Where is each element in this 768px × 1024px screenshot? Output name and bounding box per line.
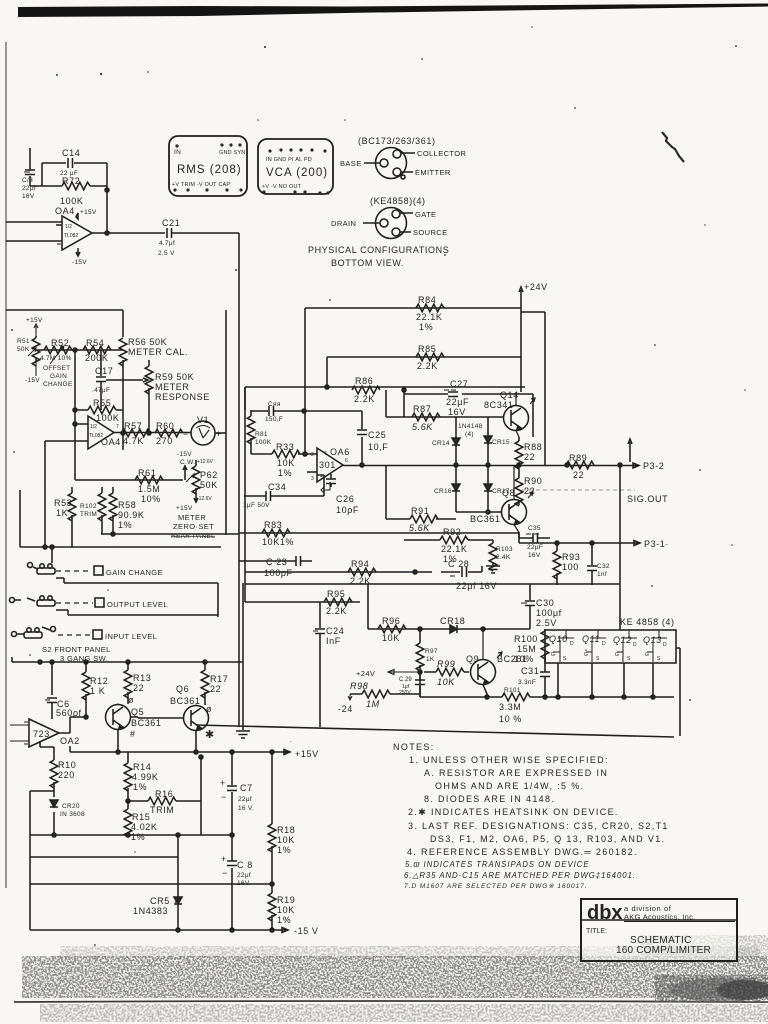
wire top rail meter section — [6, 310, 123, 337]
svg-text:22: 22 — [573, 470, 584, 480]
node — [555, 541, 559, 545]
wire main ground rail — [196, 725, 674, 737]
wire OA2 out to Q5 base — [59, 717, 86, 733]
svg-text:#: # — [130, 729, 136, 739]
svg-text:4.7μf: 4.7μf — [159, 240, 175, 247]
svg-text:3. LAST REF. DESIGNATIONS:: 3. LAST REF. DESIGNATIONS: C35, CR20, S2… — [408, 821, 669, 831]
svg-text:1%: 1% — [278, 468, 292, 478]
wire rail y547 — [20, 490, 221, 563]
resistor R58 — [109, 487, 144, 534]
svg-text:GND SYN: GND SYN — [219, 150, 245, 156]
svg-text:Q9: Q9 — [466, 654, 479, 664]
svg-text:R93: R93 — [562, 552, 580, 562]
svg-text:C7: C7 — [240, 783, 253, 793]
svg-text:OA6: OA6 — [330, 447, 350, 457]
svg-text:.47μF: .47μF — [92, 387, 110, 394]
resistor R12 — [82, 662, 108, 717]
resistor R94 — [348, 559, 376, 586]
resistor R52 — [40, 338, 72, 364]
wire rail y584 — [245, 387, 620, 602]
fet Q13 — [643, 630, 667, 662]
top scan bar — [18, 4, 768, 18]
resistor R16 TRIM — [128, 755, 203, 835]
svg-text:(BC173/263/361): (BC173/263/361) — [358, 136, 436, 146]
svg-text:+24V: +24V — [356, 669, 375, 678]
svg-text:DS3, F1, M2, OA6, P5, Q 13, R: DS3, F1, M2, OA6, P5, Q 13, R103, AND V1… — [430, 834, 665, 844]
svg-text:1N4148: 1N4148 — [458, 423, 483, 430]
svg-text:1. UNLESS OTHER WISE SPECIFIE: 1. UNLESS OTHER WISE SPECIFIED: — [409, 755, 609, 765]
svg-text:GATE: GATE — [415, 210, 436, 219]
wire CR18 row — [368, 628, 530, 630]
svg-text:-24: -24 — [338, 704, 353, 714]
svg-text:C26: C26 — [336, 494, 354, 504]
capacitor C35 — [519, 525, 550, 559]
wire Q8 base row — [456, 511, 501, 513]
svg-text:R57: R57 — [124, 421, 142, 431]
svg-text:R18: R18 — [277, 825, 295, 835]
resistor R17 — [201, 662, 228, 705]
svg-text:16V: 16V — [528, 552, 541, 559]
svg-text:C 23: C 23 — [266, 557, 287, 567]
svg-text:-15V: -15V — [72, 259, 87, 266]
svg-text:METER: METER — [178, 513, 206, 522]
dashed link — [56, 602, 93, 604]
svg-text:2.✱ INDICATES HEATSINK ON DE: 2.✱ INDICATES HEATSINK ON DEVICE. — [408, 807, 619, 817]
svg-text:INPUT LEVEL: INPUT LEVEL — [105, 632, 157, 641]
svg-text:R55: R55 — [93, 398, 111, 408]
resistor R60 — [155, 421, 183, 446]
diode CR15 — [484, 417, 510, 466]
svg-text:+15V: +15V — [295, 749, 319, 759]
svg-text:G: G — [615, 652, 619, 658]
svg-text:✗: ✗ — [174, 895, 182, 905]
svg-text:10K: 10K — [277, 458, 295, 468]
svg-text:R91: R91 — [411, 506, 429, 516]
svg-text:100K: 100K — [60, 196, 83, 206]
svg-text:10,F: 10,F — [368, 442, 388, 452]
svg-text:C31: C31 — [521, 666, 539, 676]
svg-text:R103: R103 — [496, 546, 513, 553]
resistor R14 — [124, 752, 158, 801]
capacitor C21 — [158, 218, 239, 257]
svg-text:5.ϖ INDICATES TRANSIPADS ON: 5.ϖ INDICATES TRANSIPADS ON DEVICE — [405, 860, 590, 869]
svg-text:100: 100 — [562, 562, 579, 572]
svg-text:TITLE:: TITLE: — [586, 928, 607, 935]
svg-text:22: 22 — [524, 486, 535, 496]
svg-text:OHMS AND ARE 1/4W, :5 %.: OHMS AND ARE 1/4W, :5 %. — [435, 781, 584, 791]
capacitor C7 — [220, 752, 254, 835]
fet Q12 — [613, 630, 637, 662]
resistor R100 — [514, 629, 549, 664]
svg-text:RMS (208): RMS (208) — [177, 164, 242, 176]
switch gain change contacts — [28, 563, 56, 575]
resistor R85 — [416, 344, 444, 371]
ground — [486, 566, 500, 573]
svg-text:(4): (4) — [465, 431, 474, 438]
svg-text:C14: C14 — [62, 148, 80, 158]
meter V1 — [183, 415, 222, 445]
node — [38, 660, 42, 664]
svg-text:EMITTER: EMITTER — [415, 168, 451, 177]
svg-text:-12.6V: -12.6V — [197, 496, 212, 502]
svg-text:R33: R33 — [276, 442, 294, 452]
svg-text:BC361: BC361 — [131, 718, 162, 728]
svg-text:KE 4858 (4): KE 4858 (4) — [620, 617, 675, 627]
resistor R91 — [386, 466, 456, 533]
svg-text:R59 50K: R59 50K — [155, 372, 194, 382]
svg-text:1%: 1% — [277, 915, 291, 925]
svg-text:270: 270 — [156, 436, 173, 446]
svg-text:1%: 1% — [131, 832, 145, 842]
svg-text:R92: R92 — [443, 527, 461, 537]
svg-text:C30: C30 — [536, 598, 554, 608]
svg-text:22.1K: 22.1K — [416, 312, 443, 322]
node — [121, 431, 125, 435]
svg-text:AKG Acoustics, Inc.: AKG Acoustics, Inc. — [624, 913, 696, 922]
resistor R18 — [268, 752, 295, 884]
power +24V arrow — [356, 669, 420, 678]
svg-text:CR14: CR14 — [432, 440, 450, 447]
wire fet sources to rail — [558, 648, 680, 736]
svg-text:16 V.: 16 V. — [238, 805, 254, 812]
svg-text:8C341: 8C341 — [484, 400, 514, 410]
capacitor C24 — [313, 602, 344, 727]
svg-text:7: 7 — [324, 451, 327, 457]
svg-text:+12.6V: +12.6V — [197, 459, 214, 465]
svg-text:5.6K: 5.6K — [412, 422, 433, 432]
svg-text:CR5: CR5 — [150, 896, 170, 906]
wire P3-2 out — [545, 463, 639, 468]
bottom scan noise band — [22, 935, 768, 1022]
wire arrow up sig — [628, 439, 632, 462]
svg-text:+: + — [221, 854, 227, 864]
svg-text:22: 22 — [133, 683, 144, 693]
diode CR16 — [434, 466, 460, 512]
wire rail -15V — [30, 928, 288, 933]
svg-text:C25: C25 — [368, 430, 386, 440]
node — [270, 882, 274, 886]
wire rail y662 — [12, 657, 243, 662]
svg-text:IN: IN — [174, 149, 181, 156]
svg-text:7.D M1607 ARE SELECTED PER: 7.D M1607 ARE SELECTED PER DWG※ 160017. — [404, 883, 588, 890]
svg-text:Q5: Q5 — [131, 707, 144, 717]
node — [485, 695, 489, 699]
svg-text:R16: R16 — [155, 789, 173, 799]
svg-text:7: 7 — [116, 424, 119, 430]
svg-text:-15 V: -15 V — [294, 926, 319, 936]
svg-text:6.△R35 AND·C15 ARE MATCHED P: 6.△R35 AND·C15 ARE MATCHED PER DWG‡16400… — [404, 871, 636, 880]
box KE4858 quad — [545, 630, 676, 663]
svg-text:3.3M: 3.3M — [499, 702, 521, 712]
svg-text:R94: R94 — [351, 559, 369, 569]
svg-text:10K: 10K — [437, 677, 455, 687]
resistor R55 — [75, 398, 123, 423]
svg-text:OUTPUT LEVEL: OUTPUT LEVEL — [107, 600, 168, 609]
label AKG Acoustics Inc — [624, 913, 735, 922]
resistor R90 — [515, 466, 542, 506]
svg-text:R89: R89 — [569, 453, 587, 463]
module RMS (208) — [169, 136, 247, 196]
wire row R52 R54 — [36, 349, 123, 351]
wire sig out vertical — [619, 465, 621, 630]
capacitor C25 — [357, 411, 388, 465]
svg-text:CR18: CR18 — [440, 616, 465, 626]
svg-text:C 8: C 8 — [237, 860, 253, 870]
svg-text:22μF: 22μF — [527, 544, 543, 551]
svg-text:C21: C21 — [162, 218, 180, 228]
svg-text:4.02K: 4.02K — [131, 822, 158, 832]
svg-text:1nf: 1nf — [597, 571, 607, 578]
node — [73, 348, 77, 352]
resistor R53 — [54, 487, 76, 547]
wire arrow to R59 — [106, 378, 148, 382]
dashed link — [58, 634, 91, 636]
svg-text:10K: 10K — [382, 633, 400, 643]
resistor R103 — [489, 540, 513, 571]
resistor R101 — [483, 685, 530, 725]
power +15V arrow — [76, 209, 97, 219]
svg-text:C27: C27 — [450, 379, 468, 389]
svg-text:90.9K: 90.9K — [118, 510, 145, 520]
svg-text:-15V: -15V — [25, 377, 40, 384]
svg-text:100μf: 100μf — [536, 608, 562, 618]
svg-text:1%: 1% — [118, 520, 132, 530]
power +15V arrow — [26, 317, 43, 336]
pinout KE4858 FET bottom view — [363, 208, 413, 239]
svg-text:D: D — [570, 641, 574, 647]
resistor R61 — [135, 468, 163, 504]
svg-text:Q10: Q10 — [549, 634, 568, 644]
svg-text:R95: R95 — [327, 589, 345, 599]
diode CR18 — [440, 616, 465, 633]
label -15V C.W. — [177, 451, 195, 466]
node — [73, 408, 77, 412]
dashed level line — [522, 489, 635, 491]
svg-text:1.5M: 1.5M — [138, 484, 160, 494]
wire R95 row — [245, 584, 368, 629]
node — [565, 463, 569, 467]
switch input level contacts — [12, 627, 56, 639]
svg-text:PHYSICAL CONFIGURATIONS: PHYSICAL CONFIGURATIONS — [308, 245, 449, 255]
wire R83 row — [239, 532, 519, 534]
potentiometer R51 — [17, 336, 40, 366]
resistor R86 — [352, 376, 380, 404]
svg-text:R15: R15 — [132, 812, 150, 822]
svg-text:OA4: OA4 — [101, 437, 121, 447]
svg-text:G: G — [645, 652, 649, 658]
svg-text:1K: 1K — [426, 656, 435, 663]
svg-text:Q8: Q8 — [502, 488, 515, 498]
svg-text:C35: C35 — [528, 525, 541, 532]
resistor R81 — [247, 410, 272, 454]
svg-text:GAIN CHANGE: GAIN CHANGE — [106, 568, 163, 577]
svg-text:CR16: CR16 — [434, 488, 452, 495]
resistor R92 — [404, 527, 493, 564]
resistor R15 — [124, 801, 157, 842]
resistor R33 — [251, 442, 317, 478]
svg-text:ZERO·SET: ZERO·SET — [173, 522, 214, 531]
svg-text:P62: P62 — [200, 470, 218, 480]
svg-text:10K: 10K — [277, 905, 295, 915]
module VCA (200) — [258, 139, 333, 195]
svg-text:+15V: +15V — [80, 209, 97, 216]
power +15V arrow — [284, 739, 319, 759]
switch output level contacts — [10, 596, 56, 606]
resistor R19 — [268, 884, 295, 930]
svg-text:−: − — [221, 792, 227, 802]
svg-text:NOTES:: NOTES: — [393, 742, 435, 752]
svg-text:P3-1·: P3-1· — [644, 539, 669, 549]
capacitor C26 — [326, 474, 359, 515]
wire output row — [114, 432, 191, 434]
wire input left — [6, 221, 62, 223]
svg-text:C 29: C 29 — [399, 677, 412, 683]
svg-text:Q6: Q6 — [176, 684, 189, 694]
svg-text:1M: 1M — [366, 699, 380, 709]
node — [52, 833, 56, 837]
svg-text:15M: 15M — [517, 644, 536, 654]
wire arrow up — [183, 466, 187, 480]
svg-text:A. RESISTOR ARE EXPRESSED IN: A. RESISTOR ARE EXPRESSED IN — [424, 768, 608, 778]
resistor R59 — [145, 360, 210, 434]
svg-text:R13: R13 — [133, 673, 151, 683]
svg-text:V1: V1 — [197, 415, 209, 425]
capacitor C30 — [521, 584, 562, 629]
resistor R97 — [416, 629, 438, 674]
svg-text:160 COMP/LIMITER: 160 COMP/LIMITER — [616, 945, 711, 956]
wire Q5 to Q6 base — [131, 717, 183, 718]
resistor R98 — [338, 681, 420, 714]
svg-text:5.6K: 5.6K — [409, 523, 430, 533]
svg-text:R97: R97 — [425, 648, 438, 655]
node — [418, 627, 422, 631]
svg-text:DRAIN: DRAIN — [331, 219, 356, 228]
svg-text:200K: 200K — [85, 353, 108, 363]
wire inverting col — [74, 350, 76, 480]
wire rail y835 — [30, 834, 232, 836]
wire rail y534 — [101, 533, 239, 535]
svg-text:R98: R98 — [350, 681, 368, 691]
svg-text:10%: 10% — [141, 494, 161, 504]
wire gain change right — [56, 578, 243, 727]
svg-text:22: 22 — [524, 452, 535, 462]
wire meter to rail — [215, 432, 226, 434]
power -15V — [25, 362, 40, 384]
svg-text:+15V: +15V — [176, 505, 193, 512]
resistor R96 — [378, 616, 406, 643]
op-amp U OA4 triangle — [6, 216, 92, 250]
svg-text:3.3nF: 3.3nF — [518, 679, 536, 686]
resistor R57 — [122, 421, 150, 446]
svg-text:22.1K: 22.1K — [441, 544, 468, 554]
wire emitter rail q5 q6 — [70, 746, 290, 752]
title block box — [581, 899, 737, 961]
diode CR20 — [30, 791, 85, 836]
svg-text:22μF: 22μF — [446, 397, 469, 407]
wire rail y857 — [30, 856, 178, 858]
svg-text:ø: ø — [206, 704, 212, 714]
resistor R54 — [83, 338, 111, 363]
svg-text:R58: R58 — [118, 500, 136, 510]
notes text block — [393, 742, 669, 857]
node — [111, 532, 115, 536]
diode CR17 — [484, 466, 510, 512]
wire to op-amp inputs — [45, 424, 88, 547]
node — [413, 570, 417, 574]
wire R61 row — [75, 479, 183, 481]
svg-text:1N4383: 1N4383 — [133, 906, 168, 916]
svg-text:C.W.: C.W. — [180, 459, 195, 466]
svg-text:−: − — [222, 868, 228, 878]
svg-text:16V: 16V — [22, 193, 35, 200]
svg-text:CR20: CR20 — [62, 803, 80, 810]
svg-text:-15V: -15V — [177, 451, 192, 458]
wire R94 row — [245, 571, 432, 573]
capacitor C13 — [22, 148, 42, 200]
svg-text:ø: ø — [128, 695, 134, 705]
svg-text:1%: 1% — [419, 322, 433, 332]
svg-text:+: + — [320, 474, 323, 480]
svg-text:R53: R53 — [54, 498, 72, 508]
svg-text:TL082: TL082 — [64, 233, 78, 239]
bottom rule line — [14, 1001, 768, 1002]
svg-text:1%: 1% — [277, 845, 291, 855]
svg-text:Q11: Q11 — [582, 634, 600, 644]
svg-text:TRIM: TRIM — [80, 511, 97, 518]
svg-text:4.99K: 4.99K — [132, 772, 159, 782]
svg-text:R90: R90 — [524, 476, 542, 486]
svg-text:2.2K: 2.2K — [326, 606, 347, 616]
wire +24V branch — [521, 312, 545, 465]
resistor R99 — [424, 659, 469, 687]
svg-text:RESPONSE: RESPONSE — [155, 392, 210, 402]
node — [126, 799, 130, 803]
node — [116, 750, 120, 754]
wire R86 rail — [245, 387, 525, 410]
svg-text:1/2: 1/2 — [90, 424, 97, 430]
resistor R95 — [324, 589, 352, 616]
svg-text:C34: C34 — [268, 482, 286, 492]
capacitor C32 — [587, 543, 610, 585]
dashed link — [56, 570, 92, 572]
capacitor C17 — [92, 350, 113, 410]
resistor R87 — [412, 404, 440, 432]
resistor R72 — [42, 163, 107, 233]
node — [105, 231, 109, 235]
svg-text:C17: C17 — [95, 366, 113, 376]
svg-text:R100: R100 — [514, 634, 538, 644]
svg-text:✱: ✱ — [205, 729, 214, 741]
op-amp OA4 — [88, 416, 121, 449]
svg-text:2.4K: 2.4K — [496, 554, 511, 561]
svg-text:R60: R60 — [156, 421, 174, 431]
label OFFSET GAIN CHANGE — [43, 365, 73, 388]
svg-text:R19: R19 — [277, 895, 295, 905]
pinout BC transistor bottom view — [364, 148, 415, 180]
node — [486, 510, 490, 514]
transistor Q6 — [170, 684, 212, 752]
svg-text:+24V: +24V — [524, 282, 548, 292]
bottom right dark blob — [655, 975, 768, 1002]
capacitor C6 — [45, 662, 82, 719]
svg-text:SOURCE: SOURCE — [413, 228, 448, 237]
wire OA6 output row P3-2 — [343, 465, 545, 467]
capacitor C8 — [221, 835, 253, 930]
scratch mark — [662, 132, 684, 162]
svg-text:C24: C24 — [326, 626, 344, 636]
svg-text:R10: R10 — [58, 760, 76, 770]
svg-text:22μf 16V: 22μf 16V — [456, 581, 497, 591]
